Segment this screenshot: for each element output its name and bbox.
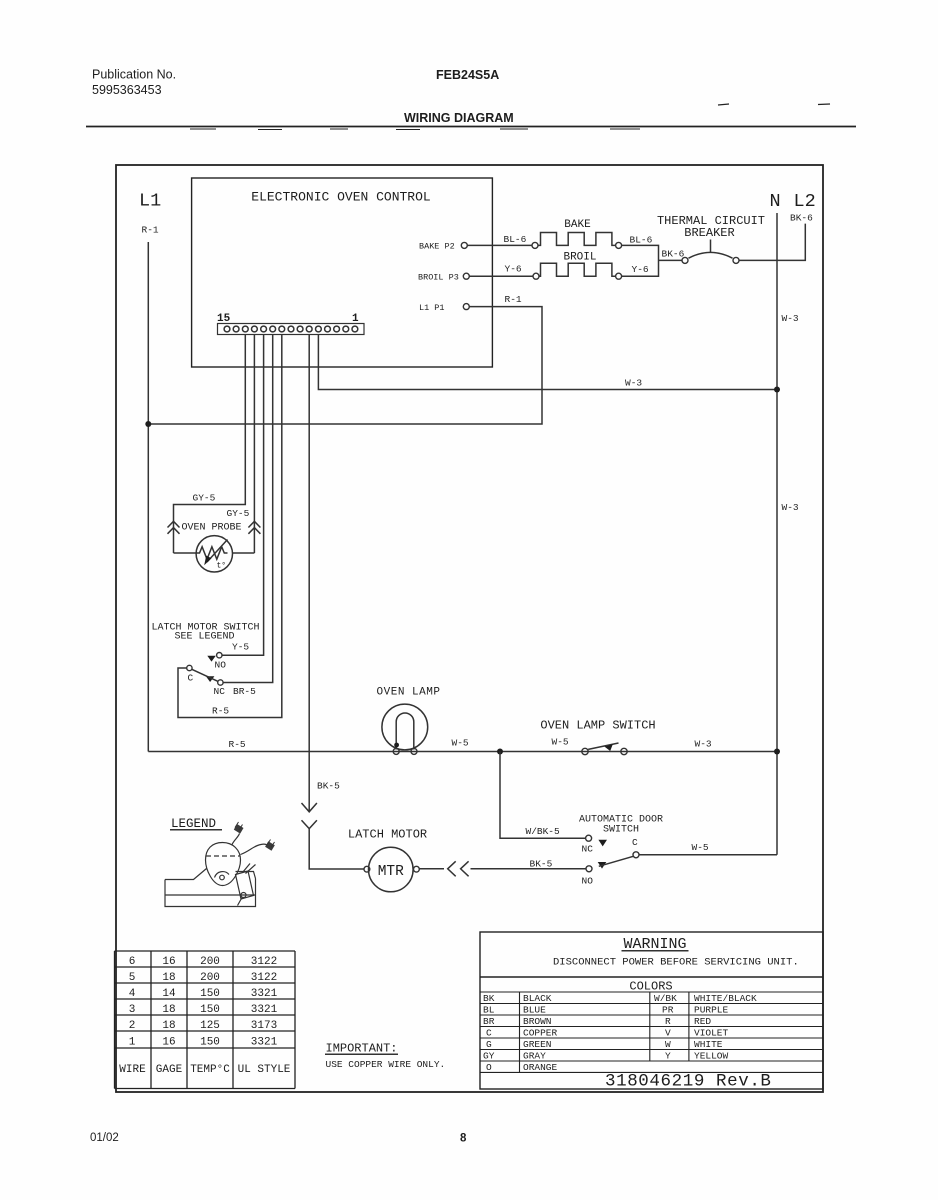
svg-text:W-3: W-3 xyxy=(695,739,712,750)
probe plug chevrons left xyxy=(168,521,180,534)
svg-text:OVEN LAMP: OVEN LAMP xyxy=(377,687,441,699)
svg-text:W-5: W-5 xyxy=(452,738,469,749)
svg-text:NC: NC xyxy=(214,686,226,697)
svg-text:IMPORTANT:: IMPORTANT: xyxy=(326,1042,398,1056)
svg-text:R-1: R-1 xyxy=(505,294,522,305)
junction node at N and main run xyxy=(774,749,780,755)
colors table text xyxy=(483,993,757,1073)
svg-text:Y-6: Y-6 xyxy=(632,264,649,275)
svg-text:BROWN: BROWN xyxy=(523,1016,552,1027)
svg-text:5: 5 xyxy=(129,972,136,984)
svg-text:BR-5: BR-5 xyxy=(233,686,256,697)
broil element (heating element) xyxy=(533,263,622,279)
svg-text:W-3: W-3 xyxy=(782,313,799,324)
outer diagram border xyxy=(116,165,823,1092)
svg-text:ORANGE: ORANGE xyxy=(523,1062,558,1073)
svg-text:WHITE: WHITE xyxy=(694,1039,723,1050)
svg-text:L1 P1: L1 P1 xyxy=(419,303,445,313)
svg-text:3321: 3321 xyxy=(251,988,278,1000)
wire P3 to broil element, label Y-6 xyxy=(469,264,533,277)
svg-text:GAGE: GAGE xyxy=(156,1064,183,1076)
svg-text:R-5: R-5 xyxy=(229,739,246,750)
svg-text:C: C xyxy=(632,837,638,848)
legend switch body xyxy=(236,871,254,899)
svg-text:BK-5: BK-5 xyxy=(530,859,553,870)
label NC and wire label BR-5 xyxy=(214,686,257,697)
junction node at lamp switch feed xyxy=(497,749,503,755)
note IMPORTANT: USE COPPER WIRE ONLY xyxy=(326,1042,446,1071)
svg-text:N: N xyxy=(770,191,781,212)
svg-text:15: 15 xyxy=(217,313,231,325)
legend base plate xyxy=(165,869,256,907)
svg-text:01/02: 01/02 xyxy=(90,1132,119,1144)
wire bracket joining bake and broil outputs xyxy=(622,245,682,276)
svg-text:PURPLE: PURPLE xyxy=(694,1005,729,1016)
svg-text:PR: PR xyxy=(662,1005,674,1016)
svg-text:200: 200 xyxy=(200,956,220,968)
wire BR-5 from pin 10 to latch switch NC xyxy=(223,335,273,683)
automatic door switch S3 xyxy=(586,835,639,872)
oven lamp DS1 xyxy=(382,704,428,754)
svg-text:YELLOW: YELLOW xyxy=(694,1051,729,1062)
wire N vertical xyxy=(776,213,778,855)
svg-text:3321: 3321 xyxy=(251,1004,278,1016)
svg-text:OVEN LAMP SWITCH: OVEN LAMP SWITCH xyxy=(540,719,655,733)
terminal P2 (BAKE) xyxy=(419,242,467,252)
svg-text:WIRE: WIRE xyxy=(119,1064,146,1076)
main bottom wire run L1 (R-5) xyxy=(148,751,777,753)
svg-text:6: 6 xyxy=(129,956,136,968)
wire BK-5 from pin 6 down to latch motor xyxy=(302,335,364,870)
svg-text:BL-6: BL-6 xyxy=(630,235,653,246)
svg-text:WIRING DIAGRAM: WIRING DIAGRAM xyxy=(404,111,514,125)
svg-text:Y-6: Y-6 xyxy=(505,264,522,275)
svg-text:150: 150 xyxy=(200,1004,220,1016)
wire Y-5 from pin 11 to latch switch NO xyxy=(222,335,264,656)
svg-text:GY: GY xyxy=(483,1051,495,1062)
svg-text:R-1: R-1 xyxy=(142,225,159,236)
terminal P1 (L1) xyxy=(419,303,469,313)
svg-text:Y-5: Y-5 xyxy=(232,642,249,653)
svg-text:BR: BR xyxy=(483,1016,495,1027)
label LEGEND xyxy=(171,817,216,831)
svg-text:NO: NO xyxy=(582,876,594,887)
electronic oven control box U1 xyxy=(192,178,493,367)
svg-text:3122: 3122 xyxy=(251,956,277,968)
svg-text:USE COPPER WIRE ONLY.: USE COPPER WIRE ONLY. xyxy=(326,1059,446,1070)
legend switch lever xyxy=(243,864,256,874)
wire gage table text xyxy=(119,956,291,1076)
svg-text:Publication No.: Publication No. xyxy=(92,68,176,82)
label LATCH MOTOR SWITCH / SEE LEGEND xyxy=(151,623,259,643)
wire R-5 from pin 9 to latch switch C xyxy=(178,335,282,718)
svg-text:16: 16 xyxy=(162,1037,175,1049)
bake element (heating element) xyxy=(532,233,622,249)
svg-text:125: 125 xyxy=(200,1020,220,1032)
svg-text:UL STYLE: UL STYLE xyxy=(238,1064,291,1076)
latch motor M1 xyxy=(364,847,419,892)
svg-text:ELECTRONIC OVEN CONTROL: ELECTRONIC OVEN CONTROL xyxy=(251,190,430,205)
svg-text:318046219 Rev.B: 318046219 Rev.B xyxy=(605,1072,772,1092)
svg-text:LEGEND: LEGEND xyxy=(171,817,216,831)
svg-text:18: 18 xyxy=(162,972,175,984)
svg-text:W-3: W-3 xyxy=(625,378,642,389)
svg-text:COLORS: COLORS xyxy=(629,980,672,994)
svg-text:W: W xyxy=(665,1039,671,1050)
svg-text:FEB24S5A: FEB24S5A xyxy=(436,68,499,82)
wire BK-5 from door switch NO to latch motor with disconnect chevrons xyxy=(419,859,586,877)
legend latch motor assembly drawing xyxy=(165,822,275,907)
wire gage table xyxy=(115,951,296,1089)
wire W/BK-5 from junction to door switch NC xyxy=(500,752,586,839)
svg-text:3122: 3122 xyxy=(251,972,277,984)
svg-text:W/BK-5: W/BK-5 xyxy=(526,826,561,837)
latch motor switch S1 xyxy=(187,653,223,686)
oven lamp switch S2 xyxy=(582,743,627,755)
label AUTOMATIC DOOR SWITCH xyxy=(579,815,663,836)
colors table grid xyxy=(480,992,823,1072)
svg-text:BROIL: BROIL xyxy=(563,252,596,264)
svg-text:BLACK: BLACK xyxy=(523,993,552,1004)
svg-text:18: 18 xyxy=(162,1004,175,1016)
svg-text:5995363453: 5995363453 xyxy=(92,83,162,97)
svg-text:BAKE P2: BAKE P2 xyxy=(419,242,455,252)
svg-text:NO: NO xyxy=(215,660,227,671)
svg-text:G: G xyxy=(486,1039,492,1050)
svg-text:8: 8 xyxy=(460,1133,467,1145)
svg-text:BK: BK xyxy=(483,993,495,1004)
svg-text:3173: 3173 xyxy=(251,1020,277,1032)
terminal P3 (BROIL) xyxy=(418,273,469,283)
svg-text:18: 18 xyxy=(162,1020,175,1032)
thermal circuit breaker CB1 xyxy=(657,214,765,263)
svg-text:GREEN: GREEN xyxy=(523,1039,552,1050)
svg-text:150: 150 xyxy=(200,988,220,1000)
svg-text:W-5: W-5 xyxy=(552,737,569,748)
svg-text:L1: L1 xyxy=(139,191,161,212)
wire GY-5 from pin 13 to probe left xyxy=(174,335,246,554)
svg-text:14: 14 xyxy=(162,988,176,1000)
svg-text:DISCONNECT POWER BEFORE SERVIC: DISCONNECT POWER BEFORE SERVICING UNIT. xyxy=(553,957,799,969)
svg-text:V: V xyxy=(665,1028,671,1039)
svg-text:L2: L2 xyxy=(794,191,816,212)
header rule xyxy=(86,104,856,130)
colors section divider xyxy=(480,976,823,978)
legend underline xyxy=(170,829,222,831)
probe plug chevrons right xyxy=(248,521,260,534)
svg-text:150: 150 xyxy=(200,1037,220,1049)
svg-text:t°: t° xyxy=(217,562,227,571)
svg-text:3: 3 xyxy=(129,1004,136,1016)
svg-text:1: 1 xyxy=(352,313,359,325)
svg-text:4: 4 xyxy=(129,988,136,1000)
svg-text:LATCH MOTOR: LATCH MOTOR xyxy=(348,828,427,842)
svg-text:MTR: MTR xyxy=(378,864,404,880)
IMPORTANT underline xyxy=(325,1053,398,1055)
wire L2 lead to breaker xyxy=(739,224,805,261)
svg-text:WHITE/BLACK: WHITE/BLACK xyxy=(694,993,757,1004)
svg-text:1: 1 xyxy=(129,1037,136,1049)
svg-text:BROIL P3: BROIL P3 xyxy=(418,273,459,283)
svg-text:Y: Y xyxy=(665,1051,671,1062)
svg-text:BL-6: BL-6 xyxy=(504,234,527,245)
legend wire 2 with connector xyxy=(241,844,267,854)
svg-text:16: 16 xyxy=(162,956,175,968)
svg-text:RED: RED xyxy=(694,1016,711,1027)
svg-text:BREAKER: BREAKER xyxy=(684,226,734,240)
svg-text:2: 2 xyxy=(129,1020,136,1032)
legend motor cam body xyxy=(206,843,241,886)
wire W-3 from pin 11 to N line xyxy=(318,335,780,393)
svg-text:BAKE: BAKE xyxy=(564,219,591,231)
svg-text:W-5: W-5 xyxy=(692,842,709,853)
WARNING underline xyxy=(622,950,689,952)
oven probe thermistor RT1 xyxy=(174,536,255,572)
svg-text:TEMP°C: TEMP°C xyxy=(190,1064,230,1076)
svg-text:SEE LEGEND: SEE LEGEND xyxy=(174,632,234,643)
svg-text:GY-5: GY-5 xyxy=(193,493,216,504)
svg-text:GY-5: GY-5 xyxy=(227,508,250,519)
svg-text:BK-6: BK-6 xyxy=(662,249,685,260)
svg-text:BK-5: BK-5 xyxy=(317,781,340,792)
header publication number text xyxy=(92,68,176,98)
svg-text:O: O xyxy=(486,1062,492,1073)
svg-text:3321: 3321 xyxy=(251,1037,278,1049)
svg-text:VIOLET: VIOLET xyxy=(694,1028,729,1039)
wire W-5 from door switch C to N line xyxy=(639,842,777,855)
wire GY-5 from pin 12 to probe right xyxy=(227,335,255,554)
wire L1 vertical feed xyxy=(147,242,149,752)
svg-text:W-3: W-3 xyxy=(782,502,799,513)
warning box xyxy=(480,932,823,1089)
svg-text:BLUE: BLUE xyxy=(523,1005,546,1016)
svg-text:BK-6: BK-6 xyxy=(790,213,813,224)
svg-text:C: C xyxy=(188,673,194,684)
svg-text:GRAY: GRAY xyxy=(523,1051,546,1062)
connector strip J1 (15 pins) xyxy=(218,324,365,335)
svg-text:NC: NC xyxy=(582,844,594,855)
svg-text:200: 200 xyxy=(200,972,220,984)
legend wire 1 with connector xyxy=(232,834,240,845)
svg-text:W/BK: W/BK xyxy=(654,993,677,1004)
wire P1 to L1 feed (R-1), junction at L1 xyxy=(145,294,542,427)
svg-text:C: C xyxy=(486,1028,492,1039)
svg-text:COPPER: COPPER xyxy=(523,1028,558,1039)
svg-text:BL: BL xyxy=(483,1005,495,1016)
svg-text:SWITCH: SWITCH xyxy=(603,825,639,836)
wire P2 to bake element, label BL-6 xyxy=(467,234,532,245)
svg-text:OVEN PROBE: OVEN PROBE xyxy=(182,523,242,534)
svg-text:R-5: R-5 xyxy=(212,706,229,717)
svg-text:R: R xyxy=(665,1016,671,1027)
